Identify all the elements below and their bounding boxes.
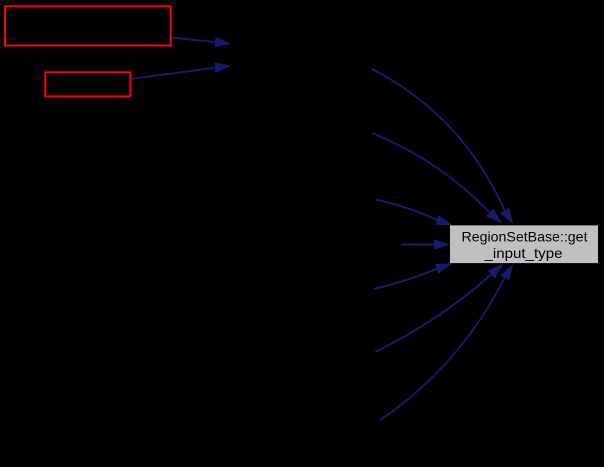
edge: curve a (topmost hidden caller to gray node, arrives top edge right port) [372,69,513,224]
edge: curve e (hidden caller below, arrives bottom-left corner) [374,264,453,289]
edge: curve b (second hidden caller to gray node, arrives top edge left port) [372,133,502,224]
edge: curve d (horizontal arrow into gray node left edge) [402,239,451,250]
edge: arrow from red box 1 to hidden middle node [172,37,232,48]
node: red box 2 (truncated caller, below box 1) [45,72,130,96]
edge: arrow from red box 2 to hidden middle node [131,63,231,79]
node: RegionSetBase::get_input_type (gray current node) [450,225,598,263]
svg-text:_input_type: _input_type [483,245,562,261]
edge: curve g (bottommost hidden caller to gray node, arrives bottom edge right port) [381,264,514,420]
node: red box 1 (truncated caller, top-left) [5,6,171,45]
svg-text:RegionSetBase::get: RegionSetBase::get [462,228,588,244]
edge: curve c (third hidden caller to gray node, arrives top-left corner) [376,200,453,226]
edge: curve f (hidden caller to gray node, arrives bottom edge left port) [375,264,504,353]
